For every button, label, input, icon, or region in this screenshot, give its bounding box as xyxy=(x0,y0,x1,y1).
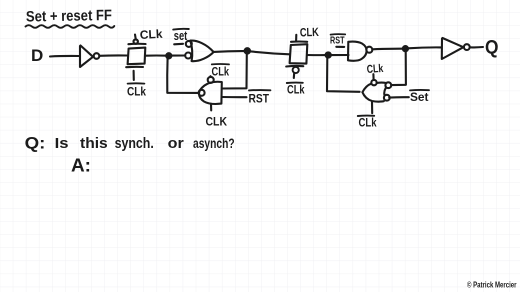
nand gate G3 xyxy=(348,42,367,61)
svg-text:Is: Is xyxy=(55,136,69,152)
label CLK-bar (TG2 bottom) overline xyxy=(287,82,303,84)
label set-bar (G1 top input) xyxy=(174,29,188,43)
label CLK (TG2 top) xyxy=(300,25,320,40)
label RST-bar (G3 top input) overline xyxy=(331,33,346,35)
answer prompt A: xyxy=(71,156,91,176)
wire TG2 to node C xyxy=(307,54,326,56)
svg-text:Q:: Q: xyxy=(25,135,46,153)
TG2 bottom P glyph tail xyxy=(293,73,296,78)
question text xyxy=(25,135,235,153)
svg-text:CLk: CLk xyxy=(212,65,230,79)
wire node B to transmission gate TG2 xyxy=(250,51,290,54)
svg-text:CLK: CLK xyxy=(300,25,320,40)
label CLK-bar (TG1 bottom) xyxy=(127,85,146,99)
svg-text:or: or xyxy=(168,136,184,152)
wire node A to NOR G1 input xyxy=(171,54,185,56)
svg-text:CLk: CLk xyxy=(366,63,384,76)
title wavy underline xyxy=(26,25,115,28)
inverter U1 xyxy=(80,46,93,68)
G4 top bubble xyxy=(371,80,376,85)
G1 bottom input bubble xyxy=(185,53,191,59)
svg-text:Set: Set xyxy=(410,90,429,104)
feedback wire node C down to NOR G4 xyxy=(327,57,360,92)
label CLK-bar (G2 top) overline xyxy=(212,63,229,65)
svg-text:CLk: CLk xyxy=(287,82,305,96)
wire node C to NAND G3 xyxy=(331,54,349,56)
node A junction xyxy=(166,53,171,58)
label CLK (G2 bottom) xyxy=(206,115,228,129)
label Set-bar overline xyxy=(410,89,429,91)
label CLK-bar (TG1 bottom) overline xyxy=(128,82,145,84)
TG2 top tick xyxy=(295,35,297,41)
G1 top input stub xyxy=(174,43,183,46)
svg-text:D: D xyxy=(31,46,43,65)
svg-text:asynch?: asynch? xyxy=(193,136,235,151)
inverter U2 bubble xyxy=(464,44,470,50)
node B junction xyxy=(245,48,250,53)
wire G1 output to node B xyxy=(214,50,245,53)
svg-text:CLK: CLK xyxy=(206,115,228,129)
G4 bottom stub xyxy=(371,102,373,113)
TG1 top gate plate xyxy=(128,43,145,46)
wire G3 output to node D xyxy=(373,48,404,51)
G2 top bubble xyxy=(208,77,214,83)
svg-text:Q: Q xyxy=(485,38,499,59)
title "Set + reset FF" xyxy=(26,7,112,25)
output label Q xyxy=(485,38,499,59)
label CLK-bar (G2 top) xyxy=(212,65,230,79)
TG1 top bubble xyxy=(134,39,138,43)
TG2 bottom P glyph loop xyxy=(293,67,299,73)
svg-text:RST: RST xyxy=(330,35,345,47)
feedback wire node B down to NAND G2 xyxy=(223,54,247,89)
G4 right bubble xyxy=(384,95,390,101)
label CLK-bar (G4 bottom) xyxy=(359,116,377,130)
nor gate G4 (clocked, points left) xyxy=(362,83,386,102)
label CLK-bar (G4 bottom) overline xyxy=(358,115,374,117)
wire node D to inverter U2 xyxy=(408,46,441,49)
wire G2 to RST-bar xyxy=(222,96,247,98)
node C junction xyxy=(326,52,331,57)
wire TG1 to node A xyxy=(146,54,169,56)
TG1 bottom tick xyxy=(133,71,135,80)
transmission gate TG2 box xyxy=(290,44,308,63)
nand gate G2 (clocked, mirrored: curve left) xyxy=(199,82,222,104)
node D junction xyxy=(403,46,408,51)
svg-text:A:: A: xyxy=(71,156,91,176)
G2 bottom stub xyxy=(210,104,212,111)
wire G4 to Set-bar xyxy=(389,96,409,99)
TG2 top plate xyxy=(291,40,307,42)
label RST-bar xyxy=(249,91,270,105)
svg-text:CLk: CLk xyxy=(359,116,377,130)
label Set-bar xyxy=(410,90,429,104)
TG1 bottom plate xyxy=(126,66,143,68)
svg-text:set: set xyxy=(174,29,188,43)
label CLK (TG1 top) xyxy=(139,27,163,42)
wire U2 to Q xyxy=(470,46,483,48)
svg-text:Set + reset FF: Set + reset FF xyxy=(26,7,112,25)
wire D to inverter U1 xyxy=(50,55,79,58)
svg-text:RST: RST xyxy=(249,91,270,105)
input label D xyxy=(31,46,43,65)
svg-text:this: this xyxy=(80,136,108,152)
svg-text:CLk: CLk xyxy=(139,27,163,42)
G2 left bubble xyxy=(199,90,205,96)
label RST-bar overline xyxy=(249,89,270,91)
inverter U2 xyxy=(442,38,464,59)
inverter U1 bubble xyxy=(94,53,100,59)
G3 output bubble xyxy=(366,47,372,53)
nor gate G1 xyxy=(190,41,213,62)
label CLK-bar (TG2 bottom) xyxy=(287,82,305,96)
wire U1 to transmission gate TG1 xyxy=(100,54,128,56)
feedback wire node D down to NOR G4 xyxy=(392,51,406,85)
label CLK (G4 top) xyxy=(366,63,384,76)
G1 top input bubble xyxy=(186,41,192,47)
label RST-bar (G3 top input) xyxy=(330,35,345,47)
G4 top-right bubble xyxy=(385,82,391,88)
G4 top stub from CLK xyxy=(372,74,374,79)
TG1 top tick xyxy=(134,35,137,40)
svg-text:© Patrick Mercier: © Patrick Mercier xyxy=(467,280,517,290)
svg-text:CLk: CLk xyxy=(127,85,146,99)
svg-text:synch.: synch. xyxy=(115,136,154,152)
transmission gate TG1 box xyxy=(128,48,146,65)
G3 top input stub xyxy=(336,46,344,48)
feedback wire node A down to NAND G2 xyxy=(167,58,198,93)
TG2 bottom plate xyxy=(286,65,303,68)
G2 top stub to CLK-bar xyxy=(209,75,211,78)
label set-bar overline xyxy=(173,28,189,31)
